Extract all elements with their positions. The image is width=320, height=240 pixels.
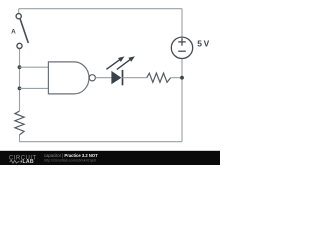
LED D1 arrow 1 [106, 56, 124, 69]
node dot input 2 [18, 87, 22, 91]
resistor R1 (vertical) [15, 111, 24, 135]
wire NAND input 1 [20, 66, 49, 68]
wire right rail lower [181, 59, 183, 142]
voltage source V1 [171, 37, 192, 58]
switch SW1 bottom terminal [17, 43, 22, 48]
LED D1 cathode bar [122, 70, 124, 85]
resistor R2 (horizontal) [147, 73, 171, 82]
node dot right rail [180, 76, 184, 80]
wire gate output to LED [95, 77, 111, 79]
svg-text:LAB: LAB [23, 159, 34, 165]
wire LED to resistor [122, 77, 146, 79]
wire NAND input 2 [20, 87, 49, 89]
voltage source V1 minus sign [178, 50, 186, 52]
LED D1 triangle [111, 71, 121, 84]
wire resistor to right rail [171, 77, 182, 79]
wire left rail (switch to resistor) [19, 49, 21, 112]
wire top rail [19, 8, 182, 10]
node dot input 1 [18, 65, 22, 69]
CircuitLab logo [9, 155, 37, 165]
switch SW1 top terminal [16, 14, 21, 19]
footer bar [0, 151, 220, 165]
NAND gate U1 output bubble [89, 75, 95, 81]
wire right rail upper [181, 9, 183, 37]
wire left rail (resistor to bottom) [19, 135, 21, 142]
wire bottom rail [20, 141, 183, 143]
LED D1 arrow 2 [117, 56, 135, 69]
NAND gate U1 body [48, 62, 89, 94]
svg-text:capacitor | Practice 3.2 NOT: capacitor | Practice 3.2 NOT [44, 153, 98, 158]
svg-text:http://circuitlab.com/c6mk42qe: http://circuitlab.com/c6mk42qe8 [44, 158, 96, 162]
voltage source V1 plus sign [178, 41, 186, 43]
switch SW1 blade [20, 19, 28, 43]
svg-text:5 V: 5 V [197, 39, 209, 49]
svg-text:A: A [11, 29, 16, 36]
switch SW1 stub [18, 9, 20, 14]
